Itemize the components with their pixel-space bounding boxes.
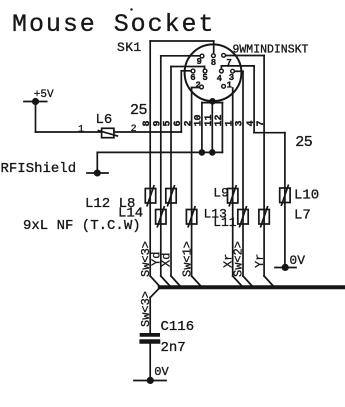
wire column pin 9 / Yd: [160, 56, 162, 276]
wire column pin 6 / +5V: [180, 71, 182, 132]
pin 5 circle: [203, 69, 207, 73]
wire bus tap to C116: [150, 288, 160, 334]
svg-text:2n7: 2n7: [161, 340, 186, 356]
wire L10 column down: [284, 133, 286, 268]
svg-text:2: 2: [195, 81, 200, 91]
svg-text:L9: L9: [213, 186, 229, 201]
wire pin 5 bend: [171, 67, 205, 70]
wire column pin 5 / Xd: [170, 67, 172, 277]
0V rail bottom: [134, 365, 170, 384]
connector SK1 body circle: [185, 44, 242, 101]
svg-text:4: 4: [217, 74, 223, 84]
wire L6 pin 2 to pin 6 column: [114, 131, 181, 133]
wire column pin 2 / Sw(1): [191, 88, 193, 277]
svg-text:25: 25: [130, 102, 148, 119]
wire RFIShield stub: [87, 172, 108, 174]
wire pin 7 bend: [226, 55, 264, 57]
svg-text:Xd: Xd: [160, 253, 174, 267]
wire bend col3 into bus: [243, 276, 253, 287]
svg-text:2: 2: [131, 124, 137, 135]
svg-text:25: 25: [295, 134, 313, 151]
svg-text:1: 1: [78, 124, 84, 135]
bus thick line: [160, 285, 345, 289]
svg-text:5: 5: [202, 73, 207, 83]
wire column pin 3 / Sw(2): [242, 71, 244, 276]
wire shield pin 12: [221, 103, 223, 153]
pin 9 circle: [200, 54, 204, 58]
inductor L7 (col pin7): [259, 207, 269, 227]
pin 3 circle: [231, 69, 235, 73]
wire bend col9 into bus: [161, 276, 171, 287]
wire column pin 8 / Sw(3): [149, 41, 151, 276]
+5V power symbol: [24, 89, 54, 105]
pin 1 circle: [222, 84, 226, 88]
stray dot above o of Socket: [130, 8, 132, 10]
inductor L10 (col pin4): [280, 185, 290, 205]
svg-text:RFIShield: RFIShield: [1, 161, 77, 177]
svg-text:9xL NF (T.C.W): 9xL NF (T.C.W): [23, 218, 141, 234]
wire +5V down to L6: [35, 102, 37, 133]
svg-text:0V: 0V: [289, 253, 305, 268]
wire bend col7 into bus: [264, 276, 274, 287]
wire shield pin 11: [211, 101, 213, 152]
inductor L8 (col pin5): [166, 186, 176, 206]
wire shield pin 10: [201, 103, 203, 153]
wire pin 4 step to L10 column: [254, 132, 285, 134]
svg-text:SK1: SK1: [117, 40, 142, 55]
inductor L6: [96, 112, 118, 138]
wire bend col2 into bus: [192, 276, 202, 287]
wire column pin 4: [253, 66, 255, 133]
svg-text:L11: L11: [213, 215, 237, 230]
inductor L12 (col pin8): [145, 186, 155, 206]
svg-text:L7: L7: [294, 208, 311, 224]
wire pin 6 bend: [181, 70, 191, 72]
svg-text:9WMINDINSKT: 9WMINDINSKT: [233, 44, 309, 57]
svg-text:2: 2: [183, 120, 194, 126]
wire pin 4 bend: [221, 66, 254, 69]
0V rail right: [275, 253, 305, 271]
svg-text:8: 8: [211, 58, 216, 68]
pin 4 circle: [220, 69, 224, 73]
wire bend col8 into bus: [150, 276, 160, 287]
svg-text:Mouse Socket: Mouse Socket: [12, 10, 215, 39]
svg-text:7: 7: [256, 120, 267, 126]
svg-text:Sw<1>: Sw<1>: [180, 241, 194, 277]
svg-text:10: 10: [194, 114, 205, 126]
junction connector shield: [209, 98, 216, 105]
wire RFIShield up: [96, 152, 98, 173]
wire pin 3 bend: [235, 70, 244, 72]
inductor L9 (col pin1): [228, 186, 238, 206]
inductor L13 (col pin2): [186, 207, 196, 227]
wire column pin 1 / Xr: [232, 88, 234, 276]
wire pin 8 top bend: [150, 41, 214, 54]
svg-text:Sw<2>: Sw<2>: [232, 241, 246, 277]
wire bend col5 into bus: [171, 276, 181, 287]
inductor L14 (col pin9): [156, 207, 166, 227]
pin 2 circle: [200, 85, 204, 89]
wire column pin 7 / Yr: [263, 56, 265, 277]
svg-text:C116: C116: [161, 319, 195, 335]
junction shield pin 10: [199, 149, 206, 156]
svg-text:Sw<3>: Sw<3>: [139, 291, 153, 327]
capacitor C116: [142, 319, 195, 356]
wire RFIShield to shield pins: [97, 151, 222, 153]
wire bend col1 into bus: [233, 276, 243, 287]
svg-text:0V: 0V: [154, 365, 169, 379]
inductor L11 (col pin3): [238, 207, 248, 227]
wire pin 2 bend: [192, 87, 200, 89]
wire shield bracket top: [202, 102, 223, 104]
svg-text:9: 9: [197, 57, 202, 67]
pin 7 circle: [222, 53, 226, 57]
svg-text:8: 8: [142, 120, 153, 126]
wire +5V to L6 pin 1: [36, 131, 102, 133]
wire C116 to 0V: [149, 344, 151, 381]
junction shield pin 11: [209, 149, 216, 156]
junction RFIShield: [94, 170, 101, 177]
svg-text:1: 1: [227, 80, 233, 90]
svg-text:L10: L10: [294, 187, 319, 203]
pin 8 circle: [212, 54, 216, 58]
pin 6 circle: [191, 69, 195, 73]
svg-text:Yr: Yr: [253, 254, 267, 268]
svg-text:3: 3: [235, 120, 246, 126]
svg-text:L6: L6: [96, 112, 113, 128]
wire pin 9 bend: [161, 55, 200, 57]
